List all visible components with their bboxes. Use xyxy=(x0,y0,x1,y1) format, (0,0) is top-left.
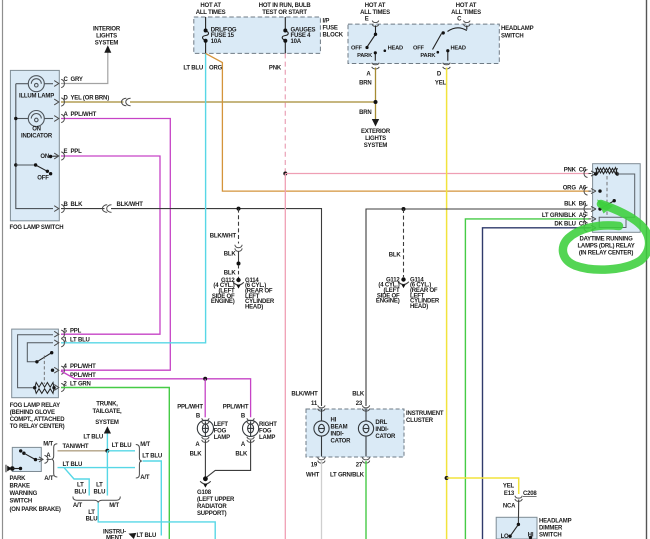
hi beam indicator lamp xyxy=(314,409,329,457)
svg-text:HOT IN RUN, BULB: HOT IN RUN, BULB xyxy=(259,3,312,9)
DRL relay contact A6 stub xyxy=(598,189,601,192)
svg-text:ON: ON xyxy=(32,127,41,133)
svg-text:ALL TIMES: ALL TIMES xyxy=(451,10,481,16)
svg-text:A/T: A/T xyxy=(140,475,150,481)
fog lamp switch pin connectors C D A E B xyxy=(54,79,64,212)
svg-text:LAMP: LAMP xyxy=(214,435,230,441)
svg-text:DRL: DRL xyxy=(375,420,387,426)
svg-text:10A: 10A xyxy=(291,39,302,45)
park brake warning switch box xyxy=(12,447,41,471)
svg-text:BRN: BRN xyxy=(359,81,371,87)
svg-text:LT BLU: LT BLU xyxy=(142,454,162,460)
headlamp dimmer switch box xyxy=(496,517,537,539)
wire BLK dashed to ground G112 right xyxy=(403,209,405,277)
DRL relay box xyxy=(593,164,641,233)
node BLK ground drop junction xyxy=(402,207,406,211)
svg-text:DIMMER: DIMMER xyxy=(539,526,563,532)
svg-text:ON: ON xyxy=(40,154,49,160)
svg-text:BLU: BLU xyxy=(86,517,98,523)
connector on ground drop xyxy=(235,245,242,252)
svg-text:E: E xyxy=(64,149,68,155)
svg-text:11: 11 xyxy=(311,401,318,407)
svg-text:MENT: MENT xyxy=(106,536,123,539)
svg-text:LO: LO xyxy=(501,534,509,539)
wire BLK to ground junction xyxy=(238,252,240,264)
svg-text:YEL: YEL xyxy=(503,483,515,489)
DRL relay pin connectors xyxy=(584,170,596,232)
svg-text:27: 27 xyxy=(356,463,363,469)
wire DK BLU DRL relay C5 xyxy=(483,228,590,539)
svg-text:ORG: ORG xyxy=(209,66,223,72)
fog relay mechanical link dashed xyxy=(43,356,45,385)
svg-text:TRUNK,: TRUNK, xyxy=(96,402,118,408)
svg-text:YEL: YEL xyxy=(435,81,447,87)
svg-text:CATOR: CATOR xyxy=(331,439,352,445)
svg-text:LEFT: LEFT xyxy=(214,422,229,428)
svg-text:LT: LT xyxy=(88,510,95,516)
svg-text:LT BLU: LT BLU xyxy=(137,533,157,539)
drl indicator lamp xyxy=(358,409,373,457)
svg-text:HEAD: HEAD xyxy=(451,46,466,52)
svg-text:NCA: NCA xyxy=(503,504,516,510)
wire LT BLU junction down to underbrace xyxy=(106,451,108,496)
wire LT GRN/BLK DRL relay A5 xyxy=(465,219,589,539)
fog relay switch blade xyxy=(37,353,52,362)
svg-text:E13: E13 xyxy=(504,491,515,497)
wire YEL headlamp switch D down off page xyxy=(446,68,448,539)
svg-text:LT BLU: LT BLU xyxy=(83,435,103,441)
svg-text:PPL: PPL xyxy=(71,149,83,155)
arrow ON contact to pin E xyxy=(52,155,57,157)
wire BRN headlamp switch A down xyxy=(375,68,377,120)
I/P fuse block box xyxy=(194,17,321,53)
svg-text:PARK: PARK xyxy=(10,476,27,482)
inline connector on BLK wire xyxy=(102,205,111,213)
fog lamp relay internals xyxy=(18,335,53,388)
svg-text:BLU: BLU xyxy=(94,489,106,495)
svg-text:ILLUM LAMP: ILLUM LAMP xyxy=(19,94,54,100)
svg-text:BLK/WHT: BLK/WHT xyxy=(210,234,237,240)
park brake switch internals xyxy=(19,449,22,452)
svg-text:OFF: OFF xyxy=(37,175,49,181)
svg-text:LT: LT xyxy=(96,483,103,489)
fog switch inner bus wire xyxy=(16,84,53,209)
svg-text:BLK: BLK xyxy=(224,252,237,258)
headlamp dimmer switch internals xyxy=(517,523,520,526)
wire PPL/WHT drop to left fog lamp xyxy=(204,379,206,418)
wire PNK junction to DRL relay pin C6 xyxy=(285,173,589,175)
left brace M/T A/T park brake xyxy=(51,444,57,477)
wire GRY from fog switch pin C to interior lights xyxy=(61,53,108,84)
svg-text:PPL/WHT: PPL/WHT xyxy=(70,364,96,370)
DRL relay mechanical link dashed xyxy=(606,176,608,215)
svg-text:SYSTEM: SYSTEM xyxy=(95,41,119,47)
svg-text:EXTERIOR: EXTERIOR xyxy=(361,129,391,135)
svg-text:COMPT., ATTACHED: COMPT., ATTACHED xyxy=(10,417,66,423)
svg-text:ENGINE): ENGINE) xyxy=(211,299,235,305)
svg-text:FOG: FOG xyxy=(214,429,227,435)
svg-text:10A: 10A xyxy=(211,39,222,45)
svg-text:(BEHIND GLOVE: (BEHIND GLOVE xyxy=(10,410,55,416)
svg-text:BLK: BLK xyxy=(71,202,84,208)
svg-text:DAYTIME RUNNING: DAYTIME RUNNING xyxy=(579,237,633,243)
wire BLK left fog lamp to G108 xyxy=(204,440,206,477)
ground G112/G114 right xyxy=(401,277,405,281)
svg-text:BRAKE: BRAKE xyxy=(10,484,31,490)
wire PPL/WHT fog relay pin 4 to fog lamps xyxy=(61,371,251,417)
wire ORG fuse to DRL relay pin A6 xyxy=(206,53,590,191)
svg-text:INSTRU-: INSTRU- xyxy=(103,529,126,535)
fog relay pin4 contact stub xyxy=(51,369,54,372)
svg-text:WHT: WHT xyxy=(306,473,320,479)
svg-text:HI: HI xyxy=(528,533,534,539)
fuse DRL/FOG 15 xyxy=(203,17,209,53)
svg-text:HOT AT: HOT AT xyxy=(456,3,477,9)
svg-text:HEADLAMP: HEADLAMP xyxy=(539,519,572,525)
svg-text:BLOCK: BLOCK xyxy=(323,33,344,39)
svg-text:CLUSTER: CLUSTER xyxy=(406,418,434,424)
svg-text:YEL (OR BRN): YEL (OR BRN) xyxy=(71,96,110,102)
connector C208 xyxy=(515,496,522,502)
wire TAN/WHT park brake to junction xyxy=(58,450,108,452)
wire BLK fog switch pin B to instrument cluster pin 11 xyxy=(61,208,105,210)
svg-text:LT BLU: LT BLU xyxy=(112,443,132,449)
svg-text:INTERIOR: INTERIOR xyxy=(93,27,121,33)
wire LT BLU A/T branch to underbrace xyxy=(64,468,89,496)
svg-text:PPL: PPL xyxy=(70,329,82,335)
svg-text:FUSE: FUSE xyxy=(323,26,338,32)
connector headlamp switch pin E xyxy=(372,21,379,27)
fuse GAUGES 4 xyxy=(282,17,288,53)
svg-text:FOG: FOG xyxy=(259,429,272,435)
svg-text:LT GRN: LT GRN xyxy=(70,382,91,388)
node LT BLU junction xyxy=(105,449,109,453)
wire YEL (OR BRN) fog switch pin D to BRN junction xyxy=(61,101,123,103)
svg-text:PARK: PARK xyxy=(420,53,436,59)
illum lamp xyxy=(16,76,53,92)
node junction BLK/WHT ground drop xyxy=(237,207,241,211)
fog switch ON/OFF switch xyxy=(16,165,48,171)
svg-text:A/T: A/T xyxy=(44,476,54,482)
fog lamp relay box xyxy=(12,329,59,398)
svg-text:INDICATOR: INDICATOR xyxy=(21,134,53,140)
green marker annotation circling DRL relay caption xyxy=(563,204,649,270)
svg-text:FOG LAMP RELAY: FOG LAMP RELAY xyxy=(10,403,60,409)
svg-text:M/T: M/T xyxy=(140,442,150,448)
svg-text:TAN/WHT: TAN/WHT xyxy=(63,444,89,450)
svg-text:BEAM: BEAM xyxy=(331,425,348,431)
svg-text:PNK: PNK xyxy=(269,66,282,72)
connector cluster pin 19 xyxy=(318,457,325,463)
svg-text:OFF: OFF xyxy=(413,46,424,52)
arrow to exterior lights system xyxy=(372,119,379,127)
svg-text:SWITCH: SWITCH xyxy=(10,499,32,505)
svg-text:HEAD: HEAD xyxy=(388,46,403,52)
ground G108 xyxy=(203,476,208,481)
svg-text:BLK: BLK xyxy=(352,391,365,397)
node YEL junction to dimmer switch xyxy=(445,476,449,480)
svg-text:INSTRUMENT: INSTRUMENT xyxy=(406,411,444,417)
wire BLK dashed to ground G112 xyxy=(238,265,240,278)
svg-text:FOG LAMP SWITCH: FOG LAMP SWITCH xyxy=(10,225,64,231)
svg-text:BLK B6: BLK B6 xyxy=(564,201,587,207)
svg-text:I/P: I/P xyxy=(323,19,330,25)
svg-text:HEAD): HEAD) xyxy=(245,304,263,310)
wire PPL fog switch pin E to fog relay pin 5 xyxy=(61,156,160,334)
wire WHT cluster pin 19 off page xyxy=(321,461,323,539)
svg-text:LAMPS (DRL) RELAY: LAMPS (DRL) RELAY xyxy=(577,244,634,250)
svg-text:OFF: OFF xyxy=(351,46,362,52)
svg-text:LT BLU: LT BLU xyxy=(183,66,203,72)
green marker start blob xyxy=(597,200,613,214)
on indicator lamp xyxy=(16,111,53,127)
wire LT BLU park brake A/T to brace xyxy=(58,467,136,469)
svg-text:TEST OR START: TEST OR START xyxy=(262,10,307,16)
svg-text:HI: HI xyxy=(331,418,337,424)
park brake pin A connector xyxy=(38,455,48,463)
svg-text:INDI-: INDI- xyxy=(331,432,344,438)
svg-text:LT GRN/BLK: LT GRN/BLK xyxy=(330,473,365,479)
wire LT BLU fuse to fog relay pin 1 xyxy=(61,53,206,342)
DRL relay internals: coil xyxy=(594,172,597,175)
svg-text:HOT AT: HOT AT xyxy=(200,3,221,9)
svg-text:BLK/WHT: BLK/WHT xyxy=(291,391,318,397)
svg-text:HEADLAMP: HEADLAMP xyxy=(501,26,534,32)
instrument cluster box xyxy=(306,409,404,457)
wire YEL junction to C208 xyxy=(447,478,519,494)
wire BLK/WHT dashed drop to G112 xyxy=(238,209,240,244)
svg-text:RIGHT: RIGHT xyxy=(259,422,277,428)
svg-text:SYSTEM: SYSTEM xyxy=(364,143,388,149)
node BLK splice xyxy=(237,262,241,266)
svg-text:SYSTEM: SYSTEM xyxy=(95,420,119,426)
node PPL/WHT split left fog lamp xyxy=(203,377,207,381)
svg-text:LAMP: LAMP xyxy=(259,435,275,441)
wire BLK DRL relay B6 to cluster pin 23 xyxy=(366,209,590,406)
svg-text:BLK: BLK xyxy=(190,451,203,457)
underbrace A/T M/T xyxy=(73,497,120,503)
svg-text:PARK: PARK xyxy=(357,53,373,59)
svg-text:G108: G108 xyxy=(197,490,212,496)
connector headlamp switch pin D xyxy=(443,63,451,69)
svg-text:HEAD): HEAD) xyxy=(410,304,428,310)
svg-text:CATOR: CATOR xyxy=(375,434,396,440)
wire PPL/WHT fog switch pin A to fog relay pin 4 xyxy=(61,119,170,371)
svg-text:BLK/WHT: BLK/WHT xyxy=(117,202,144,208)
fog lamp switch box xyxy=(10,70,59,220)
wire LT BLU trunk arrow down to junction xyxy=(106,434,108,451)
wire NCA C208 to dimmer switch xyxy=(517,500,519,525)
node BRN junction xyxy=(374,100,378,104)
wire LT GRN/BLK cluster pin 27 off page xyxy=(365,461,367,539)
node PNK junction xyxy=(283,172,287,176)
svg-text:(IN RELAY CENTER): (IN RELAY CENTER) xyxy=(579,251,633,257)
svg-text:TO RELAY CENTER): TO RELAY CENTER) xyxy=(10,424,65,430)
headlamp switch box xyxy=(348,24,499,63)
connector headlamp switch pin C xyxy=(464,21,471,27)
svg-text:INDI-: INDI- xyxy=(375,427,388,433)
svg-text:HOT AT: HOT AT xyxy=(365,3,386,9)
svg-text:C208: C208 xyxy=(523,491,537,497)
svg-text:BLK: BLK xyxy=(224,271,237,277)
DRL relay switch blade from B6 xyxy=(598,207,601,210)
svg-text:WARNING: WARNING xyxy=(10,491,38,497)
fog relay coil xyxy=(33,386,36,389)
connector cluster pin 27 xyxy=(362,457,369,463)
svg-text:PPL/WHT: PPL/WHT xyxy=(71,112,97,118)
ground G112/G114 left xyxy=(236,278,240,282)
wire LT GRN fog relay pin 2 off page xyxy=(61,388,169,539)
svg-text:LT BLU: LT BLU xyxy=(63,462,83,468)
chassis ground at park brake xyxy=(7,466,12,472)
svg-text:BLK: BLK xyxy=(389,253,402,259)
svg-text:PNK C6: PNK C6 xyxy=(564,168,587,174)
wire PNK junction down off page xyxy=(284,174,286,539)
svg-text:23: 23 xyxy=(356,401,363,407)
page right border xyxy=(646,0,648,539)
svg-text:BLU: BLU xyxy=(74,489,86,495)
svg-text:A/T: A/T xyxy=(73,503,83,509)
svg-text:M/T: M/T xyxy=(109,503,119,509)
svg-text:SUPPORT): SUPPORT) xyxy=(197,511,227,517)
svg-text:(ON PARK BRAKE): (ON PARK BRAKE) xyxy=(10,507,61,513)
connector cluster pin 11 xyxy=(318,405,325,411)
headlamp switch left half internals xyxy=(367,26,376,61)
svg-text:ORG A6: ORG A6 xyxy=(563,185,587,191)
headlamp switch right half internals xyxy=(433,26,467,61)
svg-text:LIGHTS: LIGHTS xyxy=(96,34,117,40)
svg-text:(LEFT UPPER: (LEFT UPPER xyxy=(197,497,235,503)
page left border xyxy=(2,0,4,539)
wire stub pin A to brace xyxy=(47,458,52,460)
svg-text:LT BLU: LT BLU xyxy=(70,337,90,343)
svg-text:TAILGATE,: TAILGATE, xyxy=(93,409,123,415)
svg-text:ENGINE): ENGINE) xyxy=(376,299,400,305)
right brace M/T A/T xyxy=(136,445,142,479)
connector headlamp switch pin A xyxy=(372,63,380,69)
fog lamp relay pin connectors 5 1 4 2 xyxy=(54,330,64,392)
svg-text:PPL/WHT: PPL/WHT xyxy=(177,404,203,410)
arrow to interior lights system xyxy=(104,45,111,53)
park brake bottom contact xyxy=(10,466,15,471)
svg-text:19: 19 xyxy=(311,463,318,469)
wire LT BLU junction to M/T brace xyxy=(107,450,135,452)
svg-text:SWITCH: SWITCH xyxy=(501,34,523,40)
wire LT BLU underbrace output xyxy=(98,503,215,539)
arrow instrument feed xyxy=(129,533,137,539)
svg-text:BRN: BRN xyxy=(359,110,371,116)
wire BLK right fog lamp to G108 xyxy=(207,440,251,477)
svg-text:GRY: GRY xyxy=(71,77,83,83)
svg-text:M/T: M/T xyxy=(43,441,53,447)
connector cluster pin 23 xyxy=(362,405,369,411)
wire LT BLU brace output to instrument xyxy=(143,461,162,536)
svg-text:BLK: BLK xyxy=(235,451,248,457)
wire PNK dashed fuse to junction xyxy=(284,53,286,173)
svg-text:RADIATOR: RADIATOR xyxy=(197,504,227,510)
svg-text:LT GRN/BLK A5: LT GRN/BLK A5 xyxy=(542,213,587,219)
svg-text:E: E xyxy=(365,17,369,23)
arrow to trunk tailgate system xyxy=(104,426,111,433)
svg-text:PPL/WHT: PPL/WHT xyxy=(223,404,249,410)
DRL relay internal frame xyxy=(599,174,635,228)
svg-text:LT: LT xyxy=(77,483,84,489)
svg-text:ALL TIMES: ALL TIMES xyxy=(360,10,390,16)
svg-text:SWITCH: SWITCH xyxy=(539,533,561,539)
svg-text:LIGHTS: LIGHTS xyxy=(365,136,386,142)
svg-text:ALL TIMES: ALL TIMES xyxy=(196,10,226,16)
inline connector on YEL wire xyxy=(122,98,131,106)
